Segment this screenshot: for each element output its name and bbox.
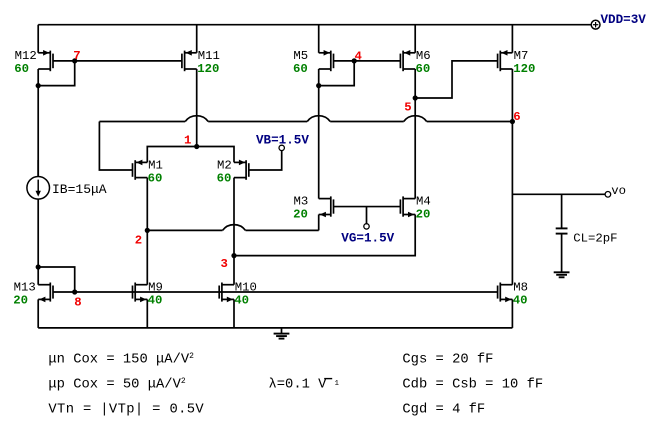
svg-text:8: 8 [74,296,81,310]
wire M12 drain [37,69,39,176]
wire M10 source [233,299,235,328]
svg-text:1: 1 [335,380,340,388]
svg-text:Cdb = Csb = 10 fF: Cdb = Csb = 10 fF [402,377,543,393]
svg-text:4: 4 [355,49,363,63]
svg-text:1: 1 [184,134,191,148]
wire M1 gate feedback riser [99,122,132,171]
transistor M13 [38,284,50,286]
svg-text:5: 5 [404,101,411,115]
wire CL top [561,194,563,228]
svg-text:7: 7 [73,49,80,63]
wire feedback bus to node 6 [99,121,185,123]
svg-text:20: 20 [13,294,28,308]
svg-text:120: 120 [197,62,219,76]
transistor M7 [500,52,512,54]
svg-text:3: 3 [221,257,228,271]
ground [274,328,290,339]
wire M1 source [146,178,148,285]
svg-text:M11: M11 [198,49,220,63]
svg-text:M5: M5 [293,49,308,63]
svg-text:20: 20 [293,207,308,221]
transistor M8 [500,284,512,286]
node 5 junction [413,95,418,100]
junction M5 drain [316,83,321,88]
junction M13 drain [36,264,41,269]
svg-text:2: 2 [135,234,142,248]
wire M5 source [318,25,320,53]
wire output to vo [512,193,605,195]
transistor M5 [319,52,331,54]
wire IB top [37,160,39,176]
wire node 7 gate bus [53,60,182,62]
wire ground rail [38,327,512,329]
svg-text:M4: M4 [416,194,431,208]
svg-text:Cgs = 20 fF: Cgs = 20 fF [402,351,493,367]
svg-text:vo: vo [611,184,626,198]
svg-text:VG=1.5V: VG=1.5V [341,231,394,245]
svg-text:40: 40 [148,294,163,308]
svg-text:6: 6 [513,110,520,124]
wire CL bottom [561,234,563,272]
svg-text:M6: M6 [416,49,431,63]
svg-text:120: 120 [513,62,535,76]
wire M11 drain [196,69,198,147]
transistor M10 [222,284,234,286]
transistor M1 [135,161,147,163]
wire IB bottom [37,199,39,285]
transistor M12 [38,52,50,54]
junction M12 drain [36,83,41,88]
wire M13 source [37,299,39,328]
wire M6 drain [414,69,416,199]
wire M3 gate to M4 gate [334,206,401,208]
svg-text:VB=1.5V: VB=1.5V [256,133,309,147]
svg-text:IB=15μA: IB=15μA [52,182,107,197]
wire node 3 to M4 source [234,215,415,256]
svg-text:VTn = |VTp| = 0.5V: VTn = |VTp| = 0.5V [48,402,204,418]
wire node 4 gate bus [334,60,401,62]
VG terminal [364,224,369,229]
current source IB [27,177,50,200]
svg-text:60: 60 [416,62,431,76]
svg-text:Cgd = 4 fF: Cgd = 4 fF [402,402,485,418]
wire M9 source [146,299,148,328]
wire M7 source [511,25,513,53]
transistor M9 [135,284,147,286]
node 1 junction [194,144,199,149]
node 7 junction [72,58,77,63]
svg-text:M3: M3 [294,194,309,208]
wire M8 source [511,299,513,328]
vo terminal [605,192,611,198]
svg-text:M7: M7 [514,49,529,63]
wire node 1 to M1 drain [147,147,196,163]
node 2 junction [145,228,150,233]
svg-text:40: 40 [513,294,528,308]
wire M5 drain [318,69,320,199]
svg-text:μn Cox = 150 μA/V2: μn Cox = 150 μA/V2 [48,351,194,367]
svg-text:60: 60 [148,171,163,185]
svg-text:μp Cox = 50 μA/V2: μp Cox = 50 μA/V2 [48,377,185,393]
wire node 8 gate bus [53,291,498,293]
wire VDD rail [38,24,591,26]
wire M12 diode link [38,61,74,86]
wire M12 source [37,25,39,53]
transistor M11 [185,52,197,54]
wire M2 source [233,178,235,285]
svg-text:M1: M1 [148,158,163,172]
svg-text:60: 60 [293,62,308,76]
wire node 2 to M3 source [147,229,222,231]
wire M13 diode link [38,267,74,292]
wire M11 source [196,25,198,53]
svg-text:M8: M8 [513,281,528,295]
node 3 junction [231,253,236,258]
svg-text:20: 20 [416,207,431,221]
svg-text:λ=0.1 V: λ=0.1 V [269,377,328,393]
wire M6 source [414,25,416,53]
transistor M4 [403,198,415,200]
svg-text:40: 40 [234,294,249,308]
capacitor CL [556,228,568,233]
svg-text:CL=2pF: CL=2pF [573,231,617,245]
wire M7 drain / output column [511,69,513,285]
transistor M6 [403,52,415,54]
wire VG tap [366,207,368,224]
wire M5 diode link [319,61,355,86]
node 6 junction [510,119,515,124]
transistor M2 [234,161,246,163]
wire node 1 to M2 drain [197,147,234,163]
wire M2 gate to VB [249,151,282,170]
svg-text:60: 60 [217,171,232,185]
svg-text:60: 60 [14,62,29,76]
node 8 junction [72,289,77,294]
transistor M3 [319,198,331,200]
VB terminal [279,145,284,150]
svg-text:VDD=3V: VDD=3V [601,13,647,27]
ground CL [554,272,570,277]
svg-text:M12: M12 [15,49,37,63]
svg-text:M13: M13 [14,281,36,295]
svg-text:M2: M2 [217,158,232,172]
VDD terminal [591,20,600,29]
wire node 5 to M7 gate [415,61,497,98]
node 4 junction [352,58,357,63]
